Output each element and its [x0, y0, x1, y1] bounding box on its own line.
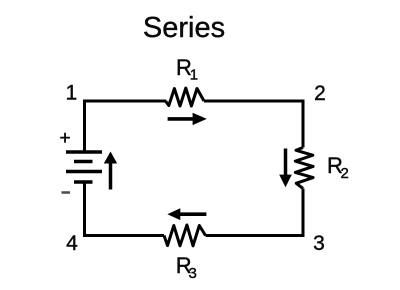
battery - polarity label [62, 191, 71, 194]
svg-text:4: 4 [66, 232, 78, 255]
resistor R3 (zigzag, bottom) [164, 225, 206, 246]
wire: battery top to node 1 corner to R1 left lead [85, 101, 167, 152]
svg-text:Series: Series [143, 12, 225, 44]
current arrow under R1 (pointing right) [168, 117, 194, 121]
svg-text:1: 1 [190, 67, 198, 84]
battery B1: long plate (top, +) [66, 150, 102, 154]
battery current arrow (pointing up) [109, 162, 113, 190]
wire: R3 left lead to node 4 corner to battery bottom [85, 182, 165, 236]
resistor R2 (zigzag, right side) [295, 148, 313, 189]
svg-text:2: 2 [341, 165, 349, 182]
svg-text:1: 1 [65, 81, 77, 104]
svg-text:2: 2 [314, 82, 326, 105]
battery short plate 1 [74, 160, 93, 164]
svg-text:+: + [59, 128, 70, 149]
current arrow above R3 (pointing left) [180, 212, 207, 216]
current arrow left of R2 (pointing down) [284, 149, 288, 176]
wire: R1 right lead to node 2 corner to R2 top lead [204, 101, 303, 148]
resistor R1 (zigzag, top) [166, 88, 205, 106]
battery long plate 2 [66, 170, 102, 174]
svg-text:3: 3 [313, 232, 325, 255]
battery short plate 2 (bottom, -) [74, 180, 93, 184]
svg-text:3: 3 [189, 265, 197, 282]
wire: R2 bottom lead to node 3 corner to R3 right lead [206, 189, 304, 236]
